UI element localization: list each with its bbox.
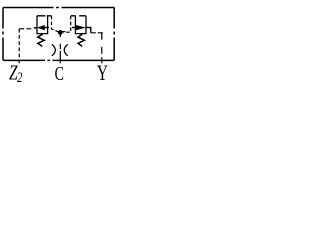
svg-text:2: 2 <box>17 70 23 86</box>
svg-text:Y: Y <box>97 61 108 85</box>
svg-text:C: C <box>55 61 64 84</box>
